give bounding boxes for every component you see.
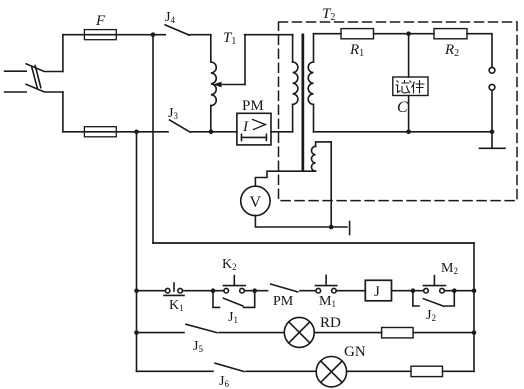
pushbutton K2 (NO) (223, 276, 245, 293)
T1 tap arrow (213, 35, 245, 88)
node: row1 right (472, 288, 477, 293)
relay contact J5 (186, 324, 284, 332)
resistor R2 (434, 29, 467, 39)
autotransformer T1 (211, 35, 216, 132)
node: gap bottom (490, 130, 495, 135)
node: top rail / control feed (151, 32, 156, 37)
svg-text:RD: RD (320, 315, 341, 331)
wire: T1 tap to T2 primary (245, 34, 293, 36)
fuse F (bottom) (63, 127, 168, 137)
pushbutton M2 (NO) (423, 276, 445, 293)
node: tertiary to V return (329, 225, 334, 230)
node: J2 right (452, 288, 457, 293)
row 3: control line (137, 370, 214, 372)
transformer T2 core (302, 34, 305, 172)
wire (183, 290, 224, 292)
wire (443, 370, 475, 372)
wire: secondary bottom return (314, 131, 493, 133)
svg-text:V: V (250, 194, 262, 211)
transformer T2 secondary (308, 34, 313, 132)
voltmeter V (241, 186, 270, 215)
switch J4 (165, 25, 211, 35)
resistor R1 (341, 29, 374, 39)
relay coil J (365, 280, 391, 301)
relay contact J6 (215, 363, 316, 371)
svg-text:PM: PM (242, 98, 264, 114)
wire: top rail (63, 34, 165, 36)
test object box (试件) C (393, 34, 428, 132)
node: bottom rail / control feed (134, 130, 139, 135)
node: row2 right (472, 330, 477, 335)
svg-text:I: I (242, 119, 249, 135)
wire: R1 to node A (374, 33, 435, 35)
transformer T2 tertiary (measuring) winding (255, 142, 331, 227)
wire (300, 290, 316, 292)
node: row2 left (134, 330, 139, 335)
wire: control feed from top rail (152, 35, 154, 243)
transformer T2 primary (293, 35, 298, 132)
overcurrent relay PM (I>) (237, 113, 271, 145)
lamp RD (284, 317, 314, 347)
wire: control feed left rail (136, 132, 138, 371)
node: T1 bottom on rail (209, 130, 214, 135)
wire (244, 290, 267, 292)
label 试件 (test object) (396, 80, 425, 94)
node: J2 left (411, 288, 416, 293)
wire: plug to bottom rail (62, 92, 64, 132)
wire (444, 290, 474, 292)
wire: control top feed (153, 242, 474, 244)
spark gap G (489, 67, 495, 131)
pushbutton K1 (NC) (164, 283, 184, 295)
lamp GN (316, 357, 346, 387)
plug P (mains input) (5, 64, 63, 92)
svg-text:C: C (397, 99, 408, 116)
wire (336, 290, 365, 292)
svg-text:GN: GN (344, 344, 366, 360)
node: J1 left (211, 288, 216, 293)
wire (413, 332, 474, 334)
wire: plug to top rail (62, 35, 64, 72)
switch J3 (170, 120, 237, 132)
wire: control right rail (473, 243, 475, 371)
row 1: control line (137, 290, 166, 292)
dashed enclosure (T2 tank) (279, 22, 518, 201)
resistor (RD ballast) (382, 328, 414, 338)
relay contact PM (271, 284, 298, 292)
resistor (GN ballast) (411, 366, 443, 376)
relay contact J2 (413, 291, 454, 307)
relay contact J1 (213, 291, 255, 308)
node A (R1/R2/C junction) (406, 31, 411, 36)
wire (347, 370, 411, 372)
wire: PM to T2 primary bottom (271, 131, 293, 133)
wire (392, 290, 424, 292)
wire (314, 332, 381, 334)
fuse F (top) (84, 30, 116, 40)
ground (earth) (480, 132, 506, 149)
wire: R2 to gap (467, 34, 492, 68)
wire: voltmeter bottom / earth bar (255, 216, 349, 235)
row 2: control line (137, 332, 185, 334)
svg-text:J: J (374, 284, 380, 300)
svg-text:F: F (95, 13, 106, 29)
svg-text:PM: PM (273, 294, 294, 309)
node: row1 left (134, 288, 139, 293)
node: J1 right (252, 288, 257, 293)
pushbutton M1 (NO) (315, 275, 336, 293)
node: C bottom (406, 130, 411, 135)
wire: secondary top to R1 (314, 33, 342, 35)
